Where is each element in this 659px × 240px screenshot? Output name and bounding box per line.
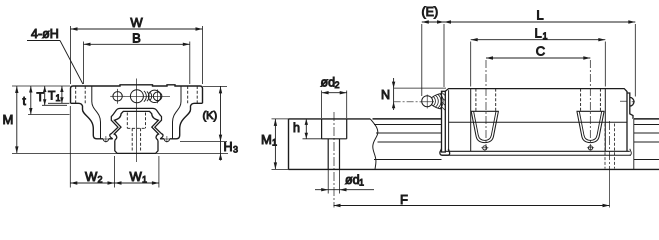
dimension h [303, 119, 322, 139]
rail hidden mounting hole (dashed) [127, 113, 145, 153]
block side view [440, 89, 635, 170]
svg-text:L: L [536, 8, 543, 23]
rail side: left section piece [289, 119, 378, 169]
hidden bolt holes 4-phiH (dashed) [76, 86, 198, 103]
dimensions W2 / W1 [70, 106, 159, 188]
hole centerline [333, 112, 335, 208]
grease nipple (front view, lying) [125, 89, 170, 103]
svg-text:1: 1 [359, 178, 364, 188]
view centerline [136, 79, 138, 163]
right end seal plate and boss nipple [627, 93, 633, 119]
svg-text:1: 1 [142, 175, 147, 185]
dimension (K) and H3 [180, 86, 227, 160]
grease nipple left (side view) [420, 93, 446, 111]
dimension W [71, 26, 203, 84]
svg-text:(K): (K) [203, 110, 218, 122]
rail body lines (right of break) [373, 119, 659, 169]
lower balls [102, 136, 170, 143]
svg-text:(E): (E) [422, 5, 439, 19]
svg-text:W: W [130, 15, 143, 30]
mounting cups [471, 111, 499, 150]
svg-text:ød: ød [321, 76, 336, 90]
dimension L [444, 20, 635, 96]
end cap boundaries [470, 89, 472, 152]
dimension phi-d2 [322, 91, 347, 119]
end-face screw circle left [110, 89, 125, 104]
dimension T1 [48, 86, 69, 103]
block outline [71, 85, 203, 139]
svg-text:2: 2 [98, 175, 103, 185]
skirt bottom lines [445, 150, 630, 152]
svg-text:C: C [536, 44, 545, 59]
inner end-cap edges [92, 86, 181, 139]
svg-text:4-øH: 4-øH [31, 27, 59, 41]
svg-text:h: h [293, 121, 300, 135]
svg-text:3: 3 [233, 145, 238, 155]
rail cross-section [114, 111, 158, 153]
dimension (E) [422, 20, 444, 96]
dimension B [84, 42, 190, 85]
dimension F [334, 170, 610, 208]
block cavity (inner profile over rail) [110, 108, 163, 138]
svg-text:F: F [400, 192, 408, 207]
top outline [445, 89, 627, 152]
dimension C [486, 56, 590, 59]
svg-text:B: B [132, 31, 141, 46]
svg-text:ød: ød [345, 173, 360, 187]
svg-text:L: L [535, 26, 542, 41]
rail hidden hole #2 under block [605, 124, 615, 169]
hidden block holes above cups [476, 89, 601, 112]
svg-text:1: 1 [56, 93, 61, 103]
dimension N [392, 78, 446, 110]
svg-text:W: W [85, 169, 98, 184]
svg-text:W: W [130, 169, 143, 184]
dimension T [42, 86, 67, 105]
svg-text:t: t [23, 94, 27, 108]
cavity line between cups [449, 121, 627, 123]
svg-text:N: N [381, 88, 390, 102]
svg-text:1: 1 [543, 31, 548, 41]
svg-text:T: T [37, 90, 45, 104]
dimension M [12, 86, 228, 153]
svg-text:2: 2 [335, 80, 340, 90]
counterbore hole section [322, 119, 347, 169]
svg-text:1: 1 [272, 138, 277, 148]
cup centerlines (also C extensions) [485, 60, 487, 150]
dimension t [28, 86, 70, 115]
svg-text:M: M [3, 112, 14, 127]
svg-text:M: M [261, 132, 272, 147]
svg-text:H: H [224, 140, 233, 154]
dimension M1 [272, 119, 289, 169]
dimension L1 [471, 38, 606, 87]
seal plate left [442, 91, 446, 152]
dimension phi-d1 [315, 169, 374, 193]
